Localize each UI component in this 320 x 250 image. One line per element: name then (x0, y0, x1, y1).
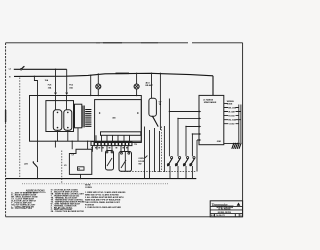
legend column 2 (51, 190, 86, 214)
transformer T1 (75, 104, 92, 141)
wire board feed 3 (186, 125, 201, 156)
svg-text:ZB . CONVECTION BLOWER MOTOR: ZB . CONVECTION BLOWER MOTOR (51, 211, 85, 213)
wire code column (224, 101, 241, 125)
ground bus wire (6, 178, 197, 179)
wire N to transformer secondary (90, 75, 92, 95)
dashed chassis line left (19, 78, 21, 179)
fuse FU1 (48, 69, 57, 95)
element E1 (101, 132, 141, 136)
fuse FU2 (65, 69, 73, 95)
door switch S4 (190, 157, 195, 179)
svg-text:K1: K1 (64, 165, 66, 167)
svg-text:SPAR RANGE: SPAR RANGE (204, 101, 217, 104)
label strip terminals (91, 147, 128, 148)
wire L1 (9, 69, 67, 71)
dashed line lower left (61, 151, 63, 184)
svg-text:Y-1092: Y-1092 (228, 124, 234, 126)
svg-text:BK-1305: BK-1305 (228, 107, 236, 109)
svg-text:CODES: CODES (85, 187, 92, 189)
legend notes (85, 184, 126, 209)
wire element to strip drops (96, 135, 130, 141)
svg-text:L1: L1 (9, 69, 11, 71)
door switch S5 (24, 76, 49, 179)
control board U1 (199, 95, 224, 144)
wire oven circuit (159, 73, 161, 130)
svg-text:FU2: FU2 (69, 85, 73, 87)
wire board feed 1 (169, 99, 201, 157)
node N junctions (90, 73, 161, 77)
wire ground verticals (239, 105, 241, 144)
svg-text:W-1287: W-1287 (228, 111, 235, 113)
label door switch text (138, 156, 147, 166)
switch SW2 (64, 96, 72, 142)
svg-text:30 IN. RANGE: 30 IN. RANGE (218, 208, 231, 211)
clock box D (64, 141, 92, 178)
label amp adjust (146, 82, 154, 88)
switch SW3 (106, 146, 114, 170)
wire drop left (54, 141, 56, 147)
svg-text:4D.8: 4D.8 (146, 82, 150, 85)
door switch S3 (183, 157, 188, 179)
svg-text:3. OVEN DOOR CLOSED AND LATCHE: 3. OVEN DOOR CLOSED AND LATCHED (85, 206, 122, 209)
svg-text:FU1: FU1 (48, 85, 52, 87)
wire strip stubs (92, 146, 102, 152)
oven box C (95, 100, 142, 143)
switch SW4 (119, 146, 132, 172)
svg-text:BU-1043: BU-1043 (228, 119, 236, 122)
wire N (9, 73, 213, 79)
ground (232, 143, 241, 149)
lamp PL2 (134, 73, 139, 95)
legend column 1 (11, 192, 38, 211)
wire fan center (144, 126, 165, 179)
wire board feed 2 (178, 117, 201, 156)
wire N to thermostat (151, 73, 153, 98)
node box A bottom junctions (55, 141, 89, 142)
dashed line lower middle (121, 171, 196, 173)
switch SW1 (53, 96, 62, 142)
node L1-fuse junction (55, 69, 57, 71)
svg-text:SW: SW (138, 163, 141, 165)
svg-text:PL . PILOT LIGHT 125V: PL . PILOT LIGHT 125V (11, 208, 32, 210)
wire board to ground (224, 143, 239, 145)
door switch S2 (175, 157, 180, 179)
terminal strip TB1 (91, 142, 137, 147)
node feed corners (169, 111, 193, 135)
svg-text:9.87: 9.87 (211, 215, 215, 217)
title block (210, 201, 242, 217)
svg-text:450: 450 (112, 116, 115, 119)
wire board feed 5 (197, 139, 201, 172)
thermostat TH1 (149, 98, 162, 126)
lamp PL1 (96, 74, 101, 96)
dotted separator (22, 183, 168, 185)
svg-text:14-29-071: 14-29-071 (216, 214, 225, 217)
svg-text:GND: GND (217, 141, 222, 143)
plug P1 (20, 66, 24, 70)
legend abbreviations title (26, 190, 46, 193)
door switch S1 (167, 157, 172, 179)
svg-text:BR AMP: BR AMP (146, 84, 154, 87)
wire N drop to control board (212, 76, 214, 96)
relay box A (30, 95, 142, 141)
svg-text:R-1164: R-1164 (228, 114, 235, 117)
wire board feed 4 (192, 133, 201, 157)
svg-text:LT. RANGE: LT. RANGE (203, 99, 214, 102)
switch block box B (46, 101, 74, 132)
dashed drop thermostat (161, 127, 163, 172)
svg-text:MODEL RDF30: MODEL RDF30 (218, 212, 231, 214)
